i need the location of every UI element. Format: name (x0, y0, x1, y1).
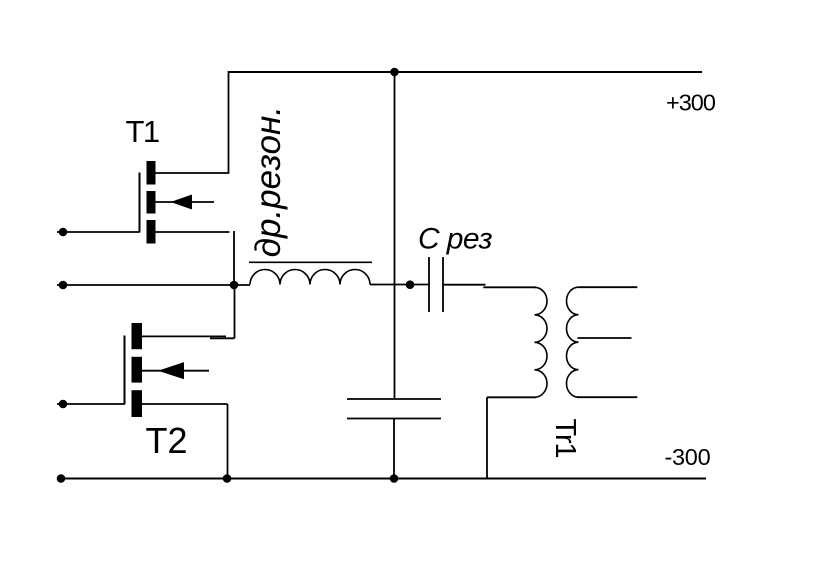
wire T2 drain (142, 335, 226, 337)
svg-text:др.резон.: др.резон. (249, 106, 288, 257)
transformer Tr1 (487, 287, 637, 478)
wire T2 drain riser to midpoint (234, 285, 236, 338)
wire +300 top rail (229, 71, 703, 73)
inductor coil humps (250, 270, 370, 285)
T2 drain bar (132, 323, 143, 349)
node half-bridge midpoint junction dot (230, 281, 239, 290)
wire -300 bottom rail (57, 477, 706, 479)
wire T1 drain (156, 172, 230, 174)
C рез right plate (442, 257, 444, 312)
T1 gate line (139, 173, 141, 233)
tank capacitor bottom stem (393, 419, 395, 479)
T2 source bar (132, 390, 143, 417)
T1 body arrow head (171, 195, 193, 210)
svg-text:Tr1: Tr1 (549, 419, 581, 458)
Tr1 primary winding (535, 287, 548, 397)
svg-text:T1: T1 (126, 114, 159, 149)
T2 body arrow line (142, 370, 209, 372)
node T2 source junction dot (223, 474, 232, 483)
wire middle rail (57, 284, 250, 286)
T1 body arrow line (156, 201, 215, 203)
Tr1 primary bottom lead (487, 396, 536, 398)
Tr1 secondary winding (567, 287, 579, 397)
T2 gate line (124, 336, 126, 405)
inductor overline (249, 261, 372, 263)
transistor T2 (125, 323, 210, 417)
T1 source bar (147, 220, 156, 244)
C рез left plate (428, 257, 430, 312)
wire inductor to capacitor (370, 284, 429, 286)
Tr1 secondary top lead (579, 286, 638, 288)
wire T1 gate lead (57, 231, 140, 233)
wire T2 source riser (227, 404, 229, 479)
svg-text:T2: T2 (146, 420, 188, 461)
T1 body bar (147, 191, 156, 214)
T2 body arrow head (158, 362, 184, 379)
Tr1 secondary bottom lead (577, 396, 637, 398)
node bottom rail left terminal dot (57, 474, 66, 483)
svg-text:C рез: C рез (418, 223, 493, 256)
inductor др.резон. (249, 262, 372, 284)
wire T2 gate lead (57, 403, 125, 405)
wire middle vertical (top rail to tank capacitor) (394, 72, 396, 399)
wire C рез to transformer (upper segment) (443, 284, 486, 286)
wire T1 drain riser (228, 71, 230, 173)
node T1 gate terminal dot (59, 228, 68, 237)
tank capacitor top plate (347, 398, 441, 400)
capacitor tank (resonant) (347, 399, 441, 479)
wire T1 source riser (233, 231, 235, 285)
transistor T1 (140, 161, 215, 244)
T1 drain bar (147, 161, 156, 185)
Tr1 primary riser to -300 rail (486, 397, 488, 478)
tank capacitor bottom plate (347, 418, 441, 420)
Tr1 secondary center tap lead (578, 337, 632, 339)
wire T1 source (156, 231, 230, 233)
node tank junction dot (406, 280, 415, 289)
node tank capacitor junction dot (390, 474, 399, 483)
node middle rail left terminal dot (59, 281, 68, 290)
wire T2 source (142, 403, 228, 405)
wire C рез to transformer (lower segment) (483, 286, 536, 288)
node T2 gate terminal dot (59, 400, 68, 409)
svg-text:+300: +300 (666, 89, 716, 115)
wire T2 drain jog segment (210, 337, 235, 339)
node junction dot on top rail (390, 68, 399, 77)
svg-text:-300: -300 (665, 444, 711, 470)
T2 body bar (132, 357, 143, 383)
capacitor C рез (429, 257, 443, 312)
